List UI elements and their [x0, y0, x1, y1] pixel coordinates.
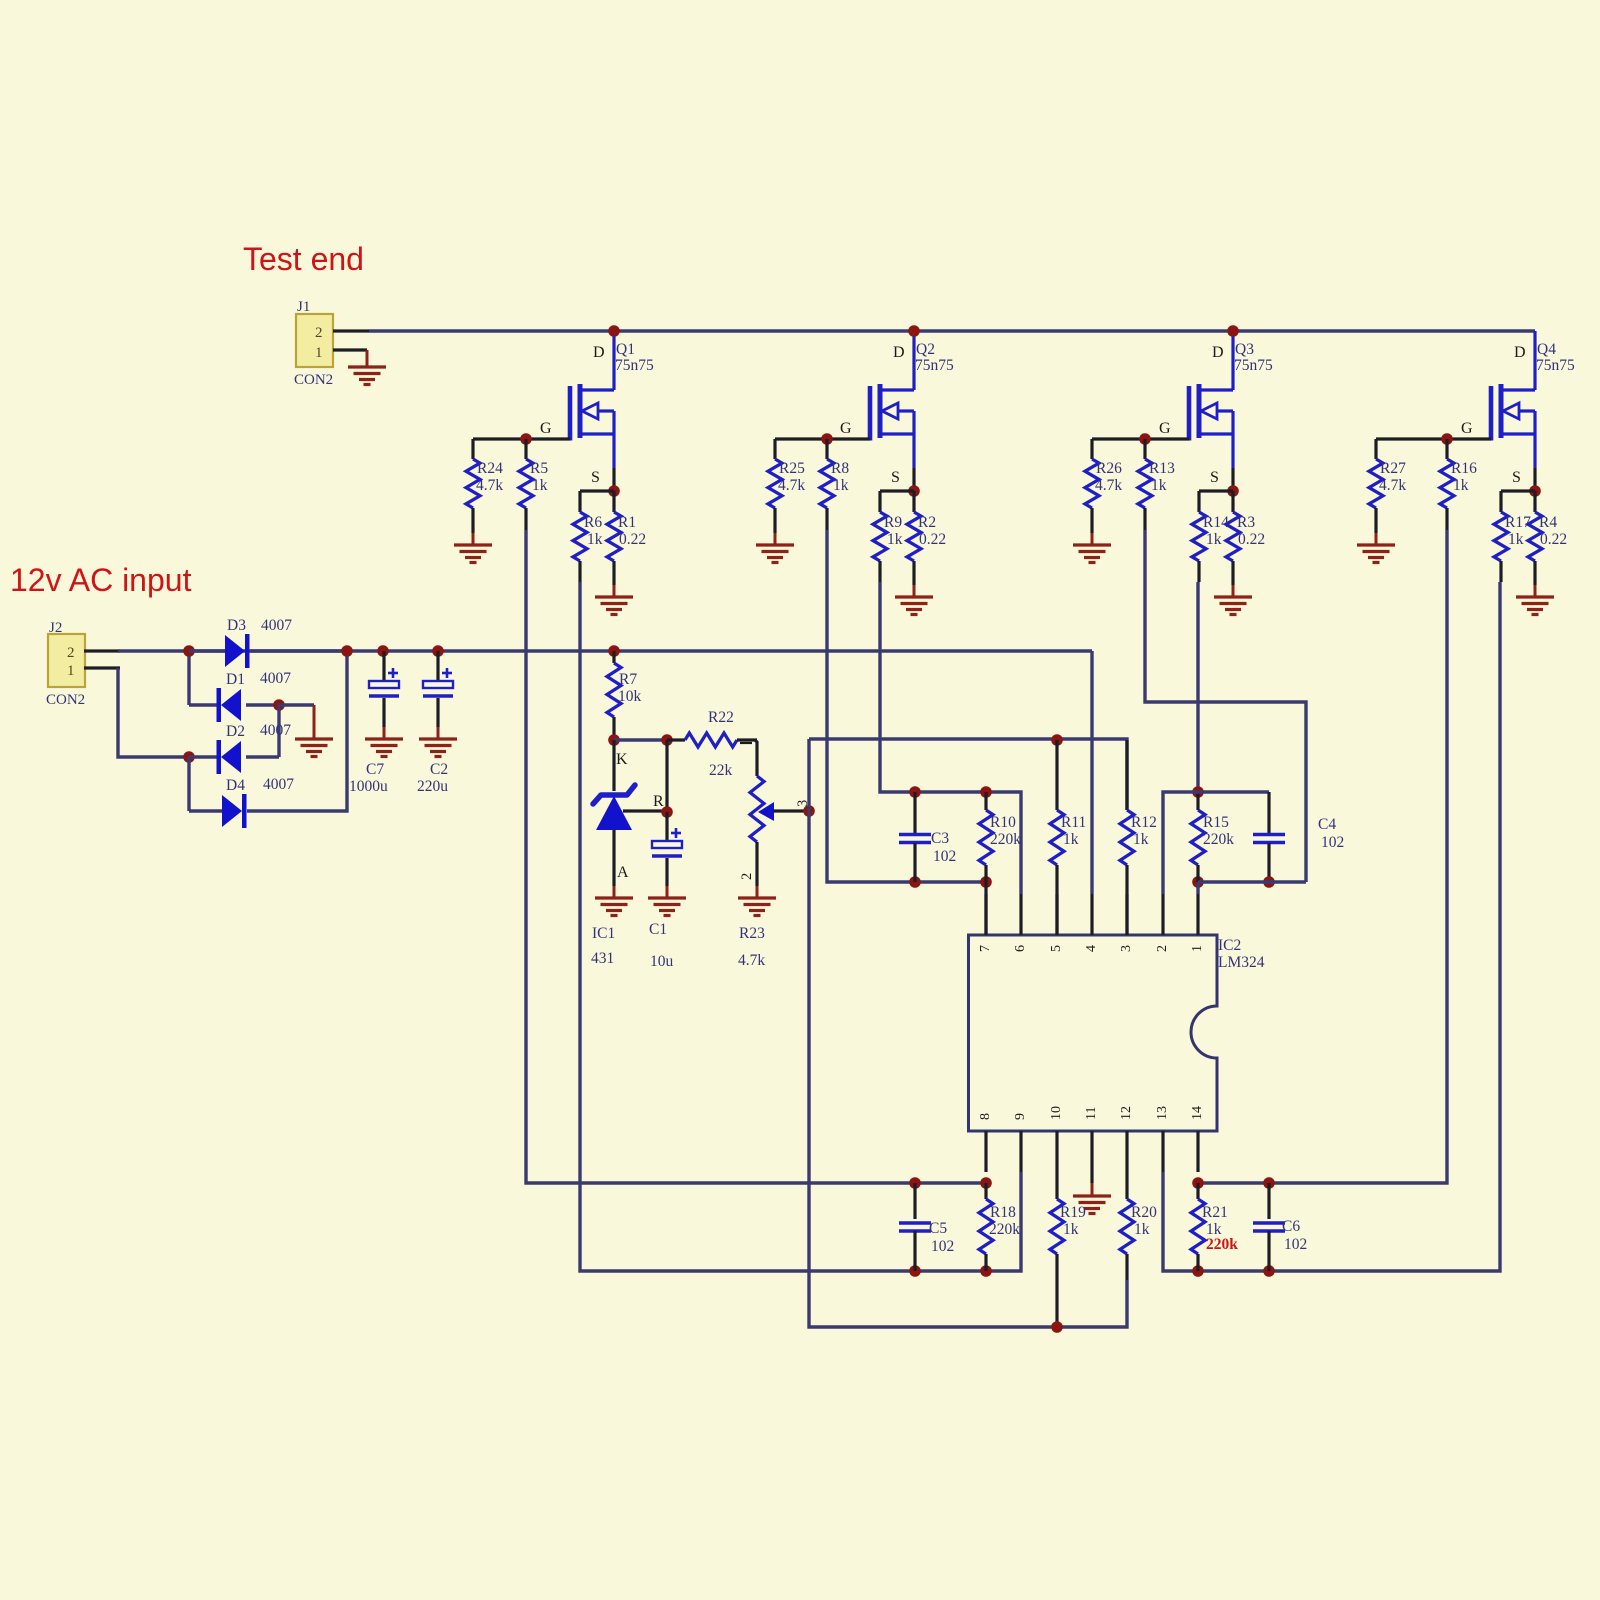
- node: drain of Q1 on rail: [608, 325, 620, 337]
- transistor Q3 75n75: [1187, 386, 1192, 441]
- svg-text:D3: D3: [227, 617, 246, 634]
- J2 pin 1 lead: [84, 666, 120, 669]
- wire: anode node down to D2: [277, 705, 280, 757]
- svg-text:0.22: 0.22: [1540, 531, 1567, 548]
- ground at J1 pin1: [366, 350, 369, 367]
- pin 7 of IC2: [984, 894, 987, 935]
- wire: R9 sense line down to inv input B row: [880, 582, 1021, 894]
- svg-text:10k: 10k: [618, 688, 642, 705]
- resistor R27 4.7k: [1374, 439, 1377, 459]
- pin 1 label of R23 (rotated): [740, 742, 752, 744]
- resistor R3 0.22 (shunt): [1231, 491, 1234, 512]
- resistor R26 4.7k: [1090, 439, 1093, 459]
- svg-text:2: 2: [1155, 945, 1170, 952]
- node: gate junction of Q2: [821, 433, 833, 445]
- svg-text:G: G: [840, 420, 852, 437]
- transistor Q1 75n75: [568, 386, 573, 441]
- node: gate junction of Q4: [1441, 433, 1453, 445]
- wire: R14 sense line down to R15 node: [1196, 582, 1199, 792]
- svg-text:Test end: Test end: [243, 241, 364, 277]
- svg-text:12: 12: [1119, 1106, 1134, 1120]
- svg-text:S: S: [1512, 469, 1521, 486]
- resistor R8 1k (gate drive): [825, 439, 828, 459]
- ground at pin 11: [1090, 1172, 1093, 1183]
- ground under R27: [1375, 533, 1378, 545]
- svg-text:2: 2: [315, 325, 323, 341]
- svg-text:2: 2: [739, 873, 755, 880]
- svg-text:S: S: [591, 469, 600, 486]
- svg-text:C2: C2: [430, 761, 448, 778]
- svg-text:D: D: [1212, 344, 1224, 361]
- svg-text:R9: R9: [884, 514, 902, 531]
- svg-text:R7: R7: [619, 671, 637, 688]
- svg-text:R23: R23: [739, 925, 765, 942]
- svg-text:5: 5: [1049, 945, 1064, 952]
- transistor Q4 75n75: [1489, 386, 1494, 441]
- svg-text:431: 431: [591, 950, 614, 967]
- svg-text:0.22: 0.22: [919, 531, 946, 548]
- svg-text:8: 8: [978, 1113, 993, 1120]
- svg-text:A: A: [617, 864, 629, 881]
- wire: R13 gate line down to out C row: [1145, 530, 1306, 882]
- svg-text:R24: R24: [477, 460, 503, 477]
- svg-text:R17: R17: [1505, 514, 1531, 531]
- ground under R26: [1091, 533, 1094, 545]
- svg-text:J1: J1: [297, 299, 310, 315]
- resistor R2 0.22 (shunt): [912, 491, 915, 512]
- ground at C2: [419, 737, 457, 740]
- svg-text:1k: 1k: [1453, 477, 1469, 494]
- svg-text:75n75: 75n75: [615, 357, 654, 374]
- svg-text:CON2: CON2: [294, 372, 333, 388]
- resistor R7 10k: [608, 645, 620, 657]
- wire: D4 cathode up to +V rail: [247, 651, 347, 811]
- svg-text:Q3: Q3: [1235, 341, 1254, 358]
- wire: source stub to R17: [1501, 489, 1535, 492]
- J1 pin 1 lead: [333, 348, 367, 351]
- svg-text:LM324: LM324: [1218, 954, 1265, 971]
- node: gate junction of Q3: [1139, 433, 1151, 445]
- resistor R11 1k: [1051, 734, 1063, 746]
- svg-text:R: R: [653, 793, 664, 810]
- ground under R3: [1232, 585, 1235, 597]
- wire: gate node of Q1: [473, 437, 526, 440]
- wire: source stub to R6: [580, 489, 614, 492]
- svg-text:G: G: [1159, 420, 1171, 437]
- svg-text:Q4: Q4: [1537, 341, 1556, 358]
- ground under R4: [1534, 585, 1537, 597]
- J1 pin 2 lead: [333, 329, 369, 332]
- svg-text:12v AC input: 12v AC input: [10, 562, 192, 598]
- pin 3 of IC2: [1125, 894, 1128, 935]
- capacitor C3 102: [909, 786, 921, 798]
- resistor R25 4.7k: [773, 439, 776, 459]
- svg-text:R25: R25: [779, 460, 805, 477]
- diode D4 (4007): [189, 809, 222, 812]
- node: R22 left junction: [661, 734, 673, 746]
- svg-text:2: 2: [67, 645, 75, 661]
- pin 10 of IC2: [1055, 1131, 1058, 1172]
- svg-text:4007: 4007: [263, 776, 294, 793]
- ground at IC1 anode: [613, 886, 616, 898]
- pin 14 of IC2: [1196, 1131, 1199, 1172]
- svg-text:C3: C3: [931, 830, 949, 847]
- svg-text:4.7k: 4.7k: [1379, 477, 1406, 494]
- svg-text:R4: R4: [1539, 514, 1557, 531]
- svg-text:102: 102: [931, 1238, 954, 1255]
- gate lead of Q1: [526, 437, 570, 440]
- ground at C7: [365, 737, 403, 740]
- pin 6 of IC2: [1019, 894, 1022, 935]
- svg-text:Q1: Q1: [616, 341, 635, 358]
- svg-text:1k: 1k: [532, 477, 548, 494]
- shunt regulator IC1 431: [612, 740, 615, 791]
- wire: R16 gate line down to out D row: [1198, 530, 1447, 1183]
- wire: R8 gate line down to out B row: [827, 530, 986, 882]
- svg-text:R22: R22: [708, 709, 734, 726]
- gate lead of Q3: [1145, 437, 1189, 440]
- svg-text:R1: R1: [618, 514, 636, 531]
- svg-text:10: 10: [1049, 1106, 1064, 1120]
- svg-text:1k: 1k: [1508, 531, 1524, 548]
- diode D2 (4007): [189, 755, 221, 758]
- pin 13 of IC2: [1161, 1131, 1164, 1172]
- resistor R9 1k (sense): [878, 491, 881, 512]
- pin 8 of IC2: [984, 1131, 987, 1172]
- svg-text:R14: R14: [1203, 514, 1229, 531]
- wire: pin1 from out C node: [1196, 882, 1199, 894]
- svg-text:D2: D2: [226, 723, 245, 740]
- svg-text:0.22: 0.22: [1238, 531, 1265, 548]
- svg-text:R2: R2: [918, 514, 936, 531]
- svg-text:1: 1: [315, 345, 323, 361]
- svg-text:D1: D1: [226, 671, 245, 688]
- node K of IC1: [608, 734, 620, 746]
- capacitor C6 102: [1263, 1177, 1275, 1189]
- wire: D3 cathode to +V rail: [250, 649, 347, 652]
- capacitor C7 1000u: [377, 645, 389, 657]
- pin 9 of IC2: [1019, 1131, 1022, 1172]
- pin 5 of IC2: [1055, 894, 1058, 935]
- node: gate junction of Q1: [520, 433, 532, 445]
- wire: top rail from J1 to Q4 drain: [369, 329, 1535, 332]
- svg-text:J2: J2: [49, 620, 62, 636]
- wire: pin2 node down to D1 row: [187, 651, 190, 705]
- svg-text:C6: C6: [1282, 1218, 1300, 1235]
- svg-text:1k: 1k: [1206, 531, 1222, 548]
- svg-text:R27: R27: [1380, 460, 1406, 477]
- svg-text:D4: D4: [226, 777, 245, 794]
- svg-text:4.7k: 4.7k: [738, 952, 765, 969]
- ground under R24: [472, 533, 475, 545]
- wire: R6 sense line down to inv input A row: [580, 582, 1021, 1271]
- svg-text:G: G: [1461, 420, 1473, 437]
- svg-text:R3: R3: [1237, 514, 1255, 531]
- wire: reference to comparator + inputs: [809, 739, 1127, 810]
- wire: D1 anode to ground node: [246, 703, 279, 706]
- node: source junction of Q1: [608, 485, 620, 497]
- svg-text:75n75: 75n75: [915, 357, 954, 374]
- node: drain of Q3 on rail: [1227, 325, 1239, 337]
- J2 pin 2 lead: [84, 649, 120, 652]
- wire: source stub to R14: [1199, 489, 1233, 492]
- svg-text:1k: 1k: [1151, 477, 1167, 494]
- svg-text:C4: C4: [1318, 816, 1336, 833]
- resistor R24 4.7k: [471, 439, 474, 459]
- svg-text:R12: R12: [1131, 814, 1157, 831]
- svg-text:S: S: [891, 469, 900, 486]
- ground under R2: [913, 585, 916, 597]
- svg-text:7: 7: [978, 945, 993, 952]
- resistor R1 0.22 (shunt): [612, 491, 615, 512]
- svg-text:220k: 220k: [990, 831, 1021, 848]
- resistor R4 0.22 (shunt): [1533, 491, 1536, 512]
- node: R19 bottom on reference row: [1051, 1321, 1063, 1333]
- svg-text:4007: 4007: [260, 722, 291, 739]
- svg-text:G: G: [540, 420, 552, 437]
- wire: R5 gate line down to op-amp out A row: [526, 530, 986, 1183]
- wire: gate node of Q2: [775, 437, 827, 440]
- svg-text:Q2: Q2: [916, 341, 935, 358]
- capacitor C1 10u: [665, 812, 668, 841]
- svg-text:220k: 220k: [1206, 1236, 1238, 1253]
- svg-text:102: 102: [1321, 834, 1344, 851]
- svg-text:R21: R21: [1202, 1204, 1228, 1221]
- svg-text:0.22: 0.22: [619, 531, 646, 548]
- ground under R25: [774, 533, 777, 545]
- node: D1/D2 anode junction: [273, 699, 285, 711]
- svg-text:4.7k: 4.7k: [1095, 477, 1122, 494]
- svg-text:1k: 1k: [1133, 831, 1149, 848]
- svg-text:R11: R11: [1061, 814, 1086, 831]
- pin 12 of IC2: [1125, 1131, 1128, 1172]
- svg-text:4: 4: [1084, 945, 1099, 952]
- svg-text:75n75: 75n75: [1234, 357, 1273, 374]
- pin 4 of IC2: [1090, 894, 1093, 935]
- node: reference R junction: [661, 806, 673, 818]
- svg-text:R15: R15: [1203, 814, 1229, 831]
- gate lead of Q4: [1447, 437, 1491, 440]
- svg-text:4007: 4007: [260, 670, 291, 687]
- svg-text:R26: R26: [1096, 460, 1122, 477]
- svg-text:4.7k: 4.7k: [778, 477, 805, 494]
- svg-text:1k: 1k: [1134, 1221, 1150, 1238]
- node: D4/D3 output junction: [341, 645, 353, 657]
- svg-text:4007: 4007: [261, 617, 292, 634]
- node: AC pin1 junction: [183, 751, 195, 763]
- svg-text:9: 9: [1013, 1113, 1028, 1120]
- ground at C1: [666, 886, 669, 898]
- node: source junction of Q3: [1227, 485, 1239, 497]
- svg-text:R10: R10: [990, 814, 1016, 831]
- resistor R15 220k: [1192, 786, 1204, 798]
- op-amp IC2 LM324 body: [969, 935, 1218, 1131]
- pin 1 of IC2: [1196, 894, 1199, 935]
- svg-text:R19: R19: [1060, 1204, 1086, 1221]
- resistor R19 1k: [1055, 1172, 1058, 1199]
- svg-text:10u: 10u: [650, 953, 674, 970]
- svg-text:R16: R16: [1451, 460, 1477, 477]
- resistor R12 1k: [1125, 740, 1128, 810]
- wire: ground branch of bridge: [279, 703, 314, 706]
- resistor R22 22k: [667, 738, 685, 741]
- svg-text:1k: 1k: [1063, 831, 1079, 848]
- svg-text:R18: R18: [990, 1204, 1016, 1221]
- svg-text:1: 1: [1190, 945, 1205, 952]
- wire: gate node of Q3: [1092, 437, 1145, 440]
- svg-text:220k: 220k: [989, 1221, 1020, 1238]
- svg-text:1000u: 1000u: [349, 778, 388, 795]
- wire: K node down to reference node: [665, 740, 668, 812]
- svg-text:C5: C5: [929, 1220, 947, 1237]
- resistor R21 1k (220k): [1192, 1177, 1204, 1189]
- pin 11 of IC2: [1090, 1131, 1093, 1172]
- diode D1 (4007): [189, 703, 221, 706]
- resistor R18 220k: [980, 1177, 992, 1189]
- svg-text:4.7k: 4.7k: [476, 477, 503, 494]
- connector J2 (CON2): [48, 634, 85, 687]
- svg-text:D: D: [893, 344, 905, 361]
- resistor R13 1k (gate drive): [1143, 439, 1146, 459]
- svg-text:IC1: IC1: [592, 925, 615, 942]
- svg-text:3: 3: [1119, 945, 1134, 952]
- svg-text:1k: 1k: [587, 531, 603, 548]
- svg-text:13: 13: [1155, 1106, 1170, 1120]
- resistor R20 1k: [1125, 1172, 1128, 1199]
- svg-text:R5: R5: [530, 460, 548, 477]
- capacitor C2 220u: [432, 645, 444, 657]
- potentiometer R23 4.7k: [750, 776, 764, 842]
- wire: R15 top node to C4: [1198, 790, 1269, 793]
- node: AC pin2 junction: [183, 645, 195, 657]
- svg-text:220k: 220k: [1203, 831, 1234, 848]
- gate lead of Q2: [827, 437, 870, 440]
- wire: K row to R22/C1 branch: [614, 738, 667, 741]
- R lead of IC1: [623, 809, 667, 812]
- ground at R23: [756, 886, 759, 898]
- wire: +12V down to pin 4: [1090, 651, 1093, 894]
- transistor Q2 75n75: [868, 386, 873, 441]
- svg-text:K: K: [616, 751, 628, 768]
- resistor R6 1k (sense): [578, 491, 581, 512]
- diode D3 (4007): [189, 649, 225, 652]
- svg-text:1: 1: [67, 663, 75, 679]
- svg-text:D: D: [1514, 344, 1526, 361]
- wire: source stub to R9: [880, 489, 914, 492]
- wire: AC line from J2 pin2 along rectifier output rail: [118, 649, 1092, 652]
- resistor R14 1k (sense): [1197, 491, 1200, 512]
- svg-text:D: D: [593, 344, 605, 361]
- svg-text:1k: 1k: [833, 477, 849, 494]
- svg-text:R20: R20: [1131, 1204, 1157, 1221]
- wire: R15 top node to pin 2: [1163, 792, 1198, 894]
- wire: pin1 node down to D4 row: [187, 757, 190, 811]
- svg-text:R13: R13: [1149, 460, 1175, 477]
- svg-text:1k: 1k: [1063, 1221, 1079, 1238]
- resistor R5 1k (gate drive): [524, 439, 527, 459]
- node: wiper reference junction: [803, 805, 815, 817]
- capacitor C5 102: [909, 1177, 921, 1189]
- svg-text:102: 102: [1284, 1236, 1307, 1253]
- svg-text:C7: C7: [366, 761, 384, 778]
- capacitor C4 102: [1267, 792, 1270, 834]
- resistor R16 1k (gate drive): [1445, 439, 1448, 459]
- ground under R1: [613, 585, 616, 597]
- svg-text:220u: 220u: [417, 778, 448, 795]
- wire: J2 pin1 down to D2/D4 node: [118, 668, 189, 757]
- node: drain of Q2 on rail: [908, 325, 920, 337]
- resistor R17 1k (sense): [1499, 491, 1502, 512]
- svg-text:R8: R8: [831, 460, 849, 477]
- wire: out C row under R15: [1198, 880, 1306, 883]
- ground at bridge center: [313, 705, 316, 739]
- svg-text:R6: R6: [584, 514, 602, 531]
- svg-text:S: S: [1210, 469, 1219, 486]
- svg-text:11: 11: [1084, 1107, 1099, 1120]
- svg-text:C1: C1: [649, 921, 667, 938]
- wire: gate node of Q4: [1376, 437, 1447, 440]
- svg-text:1k: 1k: [887, 531, 903, 548]
- pin 2 of IC2: [1161, 894, 1164, 935]
- svg-text:IC2: IC2: [1218, 937, 1241, 954]
- node: source junction of Q2: [908, 485, 920, 497]
- wire: R22 to potentiometer top: [755, 740, 757, 776]
- connector J1 (CON2): [296, 314, 333, 367]
- node: source junction of Q4: [1529, 485, 1541, 497]
- wire: reference down to R19/R20 row: [809, 811, 1127, 1327]
- resistor R10 220k: [980, 786, 992, 798]
- svg-text:102: 102: [933, 848, 956, 865]
- svg-text:CON2: CON2: [46, 692, 85, 708]
- svg-text:14: 14: [1190, 1106, 1205, 1120]
- svg-text:75n75: 75n75: [1536, 357, 1575, 374]
- svg-text:22k: 22k: [709, 762, 733, 779]
- svg-text:6: 6: [1013, 945, 1028, 952]
- wire: R17 sense line down to inv input D row: [1163, 582, 1500, 1271]
